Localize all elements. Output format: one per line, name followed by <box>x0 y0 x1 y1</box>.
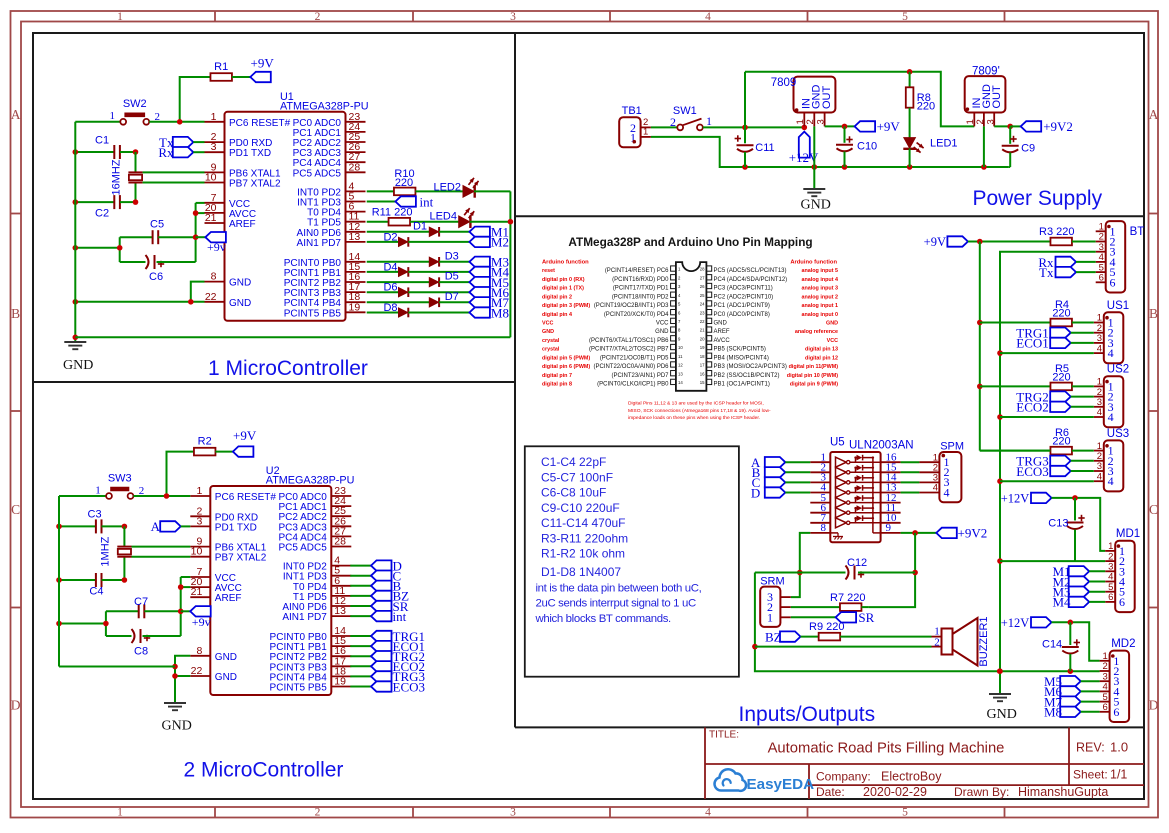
svg-text:C1-C4 22pF: C1-C4 22pF <box>541 455 606 469</box>
svg-text:R2: R2 <box>198 436 212 448</box>
svg-text:Digital Pins 11,12 & 13 are us: Digital Pins 11,12 & 13 are used by the … <box>628 401 764 407</box>
svg-text:C6-C8 10uF: C6-C8 10uF <box>541 486 606 500</box>
svg-text:3: 3 <box>510 11 516 23</box>
svg-text:D: D <box>11 697 21 712</box>
svg-text:8: 8 <box>211 271 217 283</box>
svg-text:1: 1 <box>643 127 648 138</box>
svg-text:1 MicroController: 1 MicroController <box>208 357 368 380</box>
svg-text:220: 220 <box>917 100 935 112</box>
svg-text:6: 6 <box>1103 702 1108 713</box>
svg-text:C12: C12 <box>847 557 867 569</box>
svg-text:crystal: crystal <box>542 338 560 344</box>
svg-text:C1: C1 <box>95 135 109 147</box>
svg-text:GND: GND <box>215 652 237 663</box>
svg-text:19: 19 <box>334 676 346 688</box>
svg-text:Arduino function: Arduino function <box>542 260 589 266</box>
svg-text:D3: D3 <box>445 250 459 262</box>
svg-text:+9V: +9V <box>233 428 257 443</box>
svg-text:(PCINT16/RXD) PD0: (PCINT16/RXD) PD0 <box>612 277 669 283</box>
svg-text:PC5 (ADC5/SCL/PCINT13): PC5 (ADC5/SCL/PCINT13) <box>714 268 787 274</box>
svg-text:(PCINT7/XTAL2/TOSC2) PB7: (PCINT7/XTAL2/TOSC2) PB7 <box>589 347 669 353</box>
svg-text:13: 13 <box>349 231 361 243</box>
svg-text:10: 10 <box>191 546 203 558</box>
svg-text:PD1 TXD: PD1 TXD <box>229 148 271 159</box>
svg-text:PB4 (MISO/PCINT4): PB4 (MISO/PCINT4) <box>714 355 769 361</box>
svg-text:+9V2: +9V2 <box>1043 119 1073 134</box>
svg-text:Drawn By:: Drawn By: <box>954 785 1009 799</box>
svg-text:impedance loads on these pins: impedance loads on these pins when using… <box>628 415 760 421</box>
svg-text:C5-C7 100nF: C5-C7 100nF <box>541 470 613 484</box>
svg-text:4: 4 <box>933 483 938 494</box>
svg-text:A: A <box>1149 107 1159 122</box>
svg-text:analog input 4: analog input 4 <box>801 277 838 283</box>
svg-text:int: int <box>420 194 434 209</box>
svg-text:AREF: AREF <box>714 329 730 335</box>
svg-text:R1: R1 <box>214 61 228 73</box>
svg-text:PC4 (ADC4/SDA/PCINT12): PC4 (ADC4/SDA/PCINT12) <box>714 277 788 283</box>
svg-text:(PCINT21/OC0B/T1) PD5: (PCINT21/OC0B/T1) PD5 <box>600 355 669 361</box>
svg-text:EasyEDA: EasyEDA <box>747 776 815 793</box>
svg-text:1: 1 <box>95 484 101 496</box>
svg-text:R1-R2 10k ohm: R1-R2 10k ohm <box>541 547 625 561</box>
svg-text:(PCINT22/OC0A/AIN0) PD6: (PCINT22/OC0A/AIN0) PD6 <box>593 364 669 370</box>
svg-text:(PCINT14/RESET) PC6: (PCINT14/RESET) PC6 <box>605 268 669 274</box>
svg-text:5: 5 <box>902 806 908 818</box>
svg-text:AREF: AREF <box>229 219 256 230</box>
svg-text:US3: US3 <box>1107 428 1129 440</box>
svg-text:4: 4 <box>1108 410 1114 424</box>
svg-text:24: 24 <box>700 302 705 307</box>
svg-text:R9 220: R9 220 <box>809 621 844 633</box>
svg-text:PB2 (SS/OC1B/PCINT2): PB2 (SS/OC1B/PCINT2) <box>714 373 780 379</box>
svg-text:3: 3 <box>510 806 516 818</box>
svg-text:digital pin 4: digital pin 4 <box>542 312 572 318</box>
svg-text:R11 220: R11 220 <box>372 207 413 219</box>
svg-text:PB7 XTAL2: PB7 XTAL2 <box>215 553 267 564</box>
svg-text:9: 9 <box>886 522 892 534</box>
svg-text:21: 21 <box>700 328 705 333</box>
svg-text:VCC: VCC <box>542 321 553 327</box>
svg-text:PC1 (ADC1/PCINT9): PC1 (ADC1/PCINT9) <box>714 303 770 309</box>
svg-text:6: 6 <box>1110 275 1116 289</box>
svg-text:(PCINT20/XCK/T0) PD4: (PCINT20/XCK/T0) PD4 <box>604 312 669 318</box>
svg-text:3: 3 <box>985 119 996 124</box>
svg-text:4: 4 <box>1108 346 1114 360</box>
svg-text:digital pin 11(PWM): digital pin 11(PWM) <box>789 364 839 370</box>
svg-text:GND: GND <box>229 298 251 309</box>
svg-text:VCC: VCC <box>827 338 838 344</box>
svg-text:+9v: +9v <box>207 240 226 254</box>
svg-text:2: 2 <box>934 636 940 648</box>
svg-text:C7: C7 <box>134 596 148 608</box>
svg-text:PC0 (ADC0/PCINT8): PC0 (ADC0/PCINT8) <box>714 312 770 318</box>
svg-text:digital pin 8: digital pin 8 <box>542 382 572 388</box>
svg-text:US2: US2 <box>1107 364 1129 376</box>
svg-text:5: 5 <box>902 11 908 23</box>
svg-text:R3 220: R3 220 <box>1039 226 1074 238</box>
svg-text:(PCINT17/TXD) PD1: (PCINT17/TXD) PD1 <box>613 286 669 292</box>
svg-text:4: 4 <box>1097 407 1102 418</box>
svg-text:B: B <box>11 306 20 321</box>
svg-text:GND: GND <box>826 321 838 327</box>
svg-text:PC5 ADC5: PC5 ADC5 <box>278 543 327 554</box>
svg-text:(PCINT23/AIN1) PD7: (PCINT23/AIN1) PD7 <box>611 373 669 379</box>
svg-text:GND: GND <box>801 198 831 213</box>
svg-text:1.0: 1.0 <box>1110 740 1128 755</box>
svg-text:D5: D5 <box>445 271 459 283</box>
svg-text:digital pin 10 (PWM): digital pin 10 (PWM) <box>787 373 838 379</box>
svg-text:C3: C3 <box>88 509 102 521</box>
svg-text:digital pin 7: digital pin 7 <box>542 373 572 379</box>
svg-text:C10: C10 <box>857 141 877 153</box>
svg-text:C13: C13 <box>1048 517 1068 529</box>
svg-text:R3-R11 220ohm: R3-R11 220ohm <box>541 531 628 545</box>
svg-text:4: 4 <box>1097 343 1102 354</box>
svg-text:A: A <box>11 107 21 122</box>
svg-text:23: 23 <box>700 310 705 315</box>
svg-text:SRM: SRM <box>760 576 784 588</box>
svg-text:15: 15 <box>700 380 705 385</box>
svg-text:Automatic Road Pits Filling Ma: Automatic Road Pits Filling Machine <box>768 741 1005 757</box>
svg-text:digital pin 13: digital pin 13 <box>805 347 838 353</box>
svg-text:+12V: +12V <box>1001 616 1030 630</box>
svg-text:18: 18 <box>700 354 705 359</box>
svg-text:analog input 5: analog input 5 <box>801 268 838 274</box>
svg-text:GND: GND <box>229 278 251 289</box>
svg-text:19: 19 <box>349 301 361 313</box>
svg-text:MD2: MD2 <box>1111 638 1135 650</box>
svg-text:D6: D6 <box>383 282 397 294</box>
svg-text:OUT: OUT <box>821 86 833 110</box>
svg-text:1: 1 <box>117 806 123 818</box>
svg-text:PC6 RESET#: PC6 RESET# <box>215 492 277 503</box>
svg-text:HimanshuGupta: HimanshuGupta <box>1018 785 1108 799</box>
svg-text:17: 17 <box>700 363 705 368</box>
svg-text:Arduino function: Arduino function <box>790 260 837 266</box>
svg-text:R7 220: R7 220 <box>830 592 865 604</box>
svg-text:1: 1 <box>706 114 712 128</box>
svg-text:reset: reset <box>542 268 555 274</box>
svg-text:M2: M2 <box>491 235 509 250</box>
svg-text:22: 22 <box>700 319 705 324</box>
svg-text:SR: SR <box>858 610 874 625</box>
svg-text:14: 14 <box>678 380 683 385</box>
svg-text:MD1: MD1 <box>1116 528 1140 540</box>
svg-text:ECO2: ECO2 <box>1016 400 1049 415</box>
svg-text:PC5 ADC5: PC5 ADC5 <box>293 168 342 179</box>
svg-text:OUT: OUT <box>991 85 1003 109</box>
svg-text:2020-02-29: 2020-02-29 <box>863 785 927 799</box>
svg-text:ECO3: ECO3 <box>393 679 426 694</box>
svg-text:ULN2003AN: ULN2003AN <box>849 440 914 452</box>
svg-text:C: C <box>1149 502 1158 517</box>
svg-text:analog input 2: analog input 2 <box>801 294 838 300</box>
svg-text:1: 1 <box>767 610 773 624</box>
svg-text:GND: GND <box>987 707 1017 722</box>
svg-text:GND: GND <box>542 329 554 335</box>
svg-text:PD1 TXD: PD1 TXD <box>215 522 257 533</box>
svg-text:analog input 1: analog input 1 <box>801 303 838 309</box>
svg-text:ECO1: ECO1 <box>1016 336 1049 351</box>
svg-text:Rx: Rx <box>158 145 174 160</box>
svg-text:Inputs/Outputs: Inputs/Outputs <box>739 703 876 726</box>
svg-text:4: 4 <box>705 11 711 23</box>
svg-text:D2: D2 <box>383 231 397 243</box>
svg-text:A: A <box>151 519 161 534</box>
svg-text:PB1 (OC1A/PCINT1): PB1 (OC1A/PCINT1) <box>714 382 770 388</box>
svg-text:25: 25 <box>700 293 705 298</box>
svg-text:PCINT5 PB5: PCINT5 PB5 <box>270 683 328 694</box>
svg-text:AVCC: AVCC <box>714 338 731 344</box>
svg-text:2: 2 <box>315 11 321 23</box>
svg-text:11: 11 <box>678 354 683 359</box>
svg-text:Sheet:: Sheet: <box>1073 768 1108 782</box>
svg-text:SPM: SPM <box>940 441 964 453</box>
svg-text:21: 21 <box>191 586 203 598</box>
svg-text:3: 3 <box>815 119 826 124</box>
svg-text:C: C <box>11 502 20 517</box>
svg-text:16: 16 <box>700 371 705 376</box>
svg-text:1: 1 <box>211 111 217 123</box>
svg-text:220: 220 <box>1052 436 1070 448</box>
svg-text:GND: GND <box>655 329 669 335</box>
svg-text:LED2: LED2 <box>433 182 461 194</box>
svg-text:C5: C5 <box>150 219 164 231</box>
svg-text:ATMega328P and Arduino Uno Pin: ATMega328P and Arduino Uno Pin Mapping <box>568 235 812 249</box>
svg-text:C9-C10 220uF: C9-C10 220uF <box>541 501 620 515</box>
svg-text:2 MicroController: 2 MicroController <box>184 759 344 782</box>
svg-text:C8: C8 <box>134 646 148 658</box>
svg-text:4: 4 <box>1097 471 1102 482</box>
svg-text:M4: M4 <box>1053 595 1072 610</box>
svg-text:GND: GND <box>63 358 93 373</box>
svg-text:AIN1 PD7: AIN1 PD7 <box>282 612 327 623</box>
svg-text:digital pin 6 (PWM): digital pin 6 (PWM) <box>542 364 590 370</box>
svg-text:4: 4 <box>705 806 711 818</box>
svg-text:1: 1 <box>109 110 115 122</box>
svg-text:7809: 7809 <box>771 77 797 89</box>
svg-text:GND: GND <box>714 321 728 327</box>
svg-text:D: D <box>1149 697 1159 712</box>
svg-text:1: 1 <box>117 11 123 23</box>
svg-text:C2: C2 <box>95 208 109 220</box>
svg-text:LED1: LED1 <box>930 138 958 150</box>
svg-text:digital pin 9 (PWM): digital pin 9 (PWM) <box>790 382 838 388</box>
svg-text:27: 27 <box>700 275 705 280</box>
svg-text:3: 3 <box>196 515 202 527</box>
svg-text:digital pin 0 (RX): digital pin 0 (RX) <box>542 277 585 283</box>
svg-text:13: 13 <box>334 605 346 617</box>
svg-text:digital pin 5 (PWM): digital pin 5 (PWM) <box>542 355 590 361</box>
svg-text:analog reference: analog reference <box>795 329 838 335</box>
svg-text:(PCINT19/OC2B/INT1) PD3: (PCINT19/OC2B/INT1) PD3 <box>594 303 669 309</box>
svg-text:AIN1 PD7: AIN1 PD7 <box>297 238 342 249</box>
svg-text:C9: C9 <box>1021 143 1035 155</box>
svg-text:28: 28 <box>349 161 361 173</box>
svg-text:digital pin 2: digital pin 2 <box>542 294 572 300</box>
svg-text:D1: D1 <box>413 221 427 233</box>
svg-text:+9V: +9V <box>877 119 901 134</box>
svg-text:6: 6 <box>1119 595 1125 609</box>
svg-text:Date:: Date: <box>816 785 845 799</box>
svg-text:MISO, SCK connections (Atmega1: MISO, SCK connections (Atmega168 pins 17… <box>628 408 771 414</box>
svg-text:digital pin 1 (TX): digital pin 1 (TX) <box>542 286 584 292</box>
svg-text:REV:: REV: <box>1076 741 1105 755</box>
svg-text:M8: M8 <box>491 305 509 320</box>
svg-text:analog input 3: analog input 3 <box>801 286 838 292</box>
svg-text:220: 220 <box>1052 371 1070 383</box>
svg-text:D8: D8 <box>383 302 397 314</box>
svg-text:(PCINT18/INT0) PD2: (PCINT18/INT0) PD2 <box>612 294 669 300</box>
svg-text:20: 20 <box>700 336 705 341</box>
svg-text:28: 28 <box>700 267 705 272</box>
svg-text:TITLE:: TITLE: <box>709 730 739 741</box>
svg-text:(PCINT6/XTAL1/TOSC1) PB6: (PCINT6/XTAL1/TOSC1) PB6 <box>589 338 669 344</box>
svg-text:int: int <box>393 609 407 624</box>
svg-text:26: 26 <box>700 284 705 289</box>
svg-text:C4: C4 <box>89 586 103 598</box>
svg-text:ECO3: ECO3 <box>1016 464 1049 479</box>
svg-text:BUZZER1: BUZZER1 <box>978 616 990 666</box>
svg-text:4: 4 <box>944 485 950 499</box>
svg-text:+9V2: +9V2 <box>958 526 988 541</box>
svg-text:AREF: AREF <box>215 593 242 604</box>
svg-text:PC6 RESET#: PC6 RESET# <box>229 118 291 129</box>
svg-text:C11: C11 <box>755 142 774 154</box>
svg-text:D1-D8 1N4007: D1-D8 1N4007 <box>541 565 621 579</box>
svg-text:1/1: 1/1 <box>1110 768 1127 782</box>
svg-text:4: 4 <box>1108 474 1114 488</box>
svg-text:crystal: crystal <box>542 347 560 353</box>
svg-text:10: 10 <box>678 345 683 350</box>
svg-text:C6: C6 <box>149 271 163 283</box>
svg-text:SW1: SW1 <box>673 105 697 117</box>
svg-text:analog input 0: analog input 0 <box>801 312 838 318</box>
svg-text:PCINT5 PB5: PCINT5 PB5 <box>284 308 342 319</box>
svg-text:22: 22 <box>191 665 203 677</box>
svg-text:2: 2 <box>670 115 676 129</box>
svg-text:digital pin 12: digital pin 12 <box>805 355 838 361</box>
svg-text:(PCINT0/CLKO/ICP1) PB0: (PCINT0/CLKO/ICP1) PB0 <box>597 382 669 388</box>
svg-text:B: B <box>1149 306 1158 321</box>
svg-text:+12V: +12V <box>1001 492 1030 506</box>
svg-text:1: 1 <box>196 485 202 497</box>
svg-text:10: 10 <box>205 172 217 184</box>
svg-text:TB1: TB1 <box>622 105 642 117</box>
svg-text:1MHZ: 1MHZ <box>99 536 111 566</box>
svg-text:BT: BT <box>1130 226 1145 238</box>
svg-text:+9v: +9v <box>192 615 211 629</box>
svg-text:3: 3 <box>211 141 217 153</box>
svg-text:8: 8 <box>196 645 202 657</box>
svg-text:220: 220 <box>395 177 413 189</box>
svg-text:PC2 (ADC2/PCINT10): PC2 (ADC2/PCINT10) <box>714 294 774 300</box>
svg-text:12: 12 <box>678 363 683 368</box>
svg-text:PC3 (ADC3/PCINT11): PC3 (ADC3/PCINT11) <box>714 286 773 292</box>
svg-text:+9V: +9V <box>251 56 275 71</box>
svg-text:Company:: Company: <box>816 770 871 784</box>
svg-text:D4: D4 <box>383 261 397 273</box>
svg-text:digital pin 3 (PWM): digital pin 3 (PWM) <box>542 303 590 309</box>
svg-text:D: D <box>751 485 760 500</box>
svg-text:C11-C14 470uF: C11-C14 470uF <box>541 516 626 530</box>
svg-text:PB7 XTAL2: PB7 XTAL2 <box>229 179 281 190</box>
svg-text:SW2: SW2 <box>123 98 147 110</box>
svg-text:13: 13 <box>678 371 683 376</box>
svg-text:US1: US1 <box>1107 300 1129 312</box>
svg-text:28: 28 <box>334 536 346 548</box>
svg-text:16MHZ: 16MHZ <box>111 159 123 195</box>
svg-text:19: 19 <box>700 345 705 350</box>
svg-text:C14: C14 <box>1042 638 1062 650</box>
svg-text:M8: M8 <box>1044 705 1062 720</box>
svg-text:2: 2 <box>315 806 321 818</box>
svg-text:GND: GND <box>162 719 192 734</box>
svg-text:7809': 7809' <box>972 66 1000 78</box>
svg-text:6: 6 <box>1113 705 1119 719</box>
svg-text:Tx: Tx <box>1039 265 1054 280</box>
svg-text:8: 8 <box>821 522 827 534</box>
svg-text:PB3 (MOSI/OC2A/PCINT3): PB3 (MOSI/OC2A/PCINT3) <box>714 364 787 370</box>
svg-text:+9V: +9V <box>924 235 946 249</box>
svg-text:21: 21 <box>205 212 217 224</box>
svg-text:PB5 (SCK/PCINT5): PB5 (SCK/PCINT5) <box>714 347 766 353</box>
svg-text:2uC sends interrput signal to: 2uC sends interrput signal to 1 uC <box>536 598 696 610</box>
svg-text:SW3: SW3 <box>108 472 132 484</box>
svg-text:220: 220 <box>1052 308 1070 320</box>
svg-text:LED4: LED4 <box>429 211 457 223</box>
svg-text:GND: GND <box>215 672 237 683</box>
svg-text:Power Supply: Power Supply <box>973 187 1103 210</box>
svg-text:VCC: VCC <box>656 321 669 327</box>
svg-text:int is the data pin between bo: int is the data pin between both uC, <box>536 583 702 595</box>
svg-text:ElectroBoy: ElectroBoy <box>881 770 942 784</box>
svg-text:22: 22 <box>205 291 217 303</box>
svg-text:which blocks BT commands.: which blocks BT commands. <box>535 613 672 625</box>
svg-text:6: 6 <box>1099 273 1104 284</box>
svg-text:6: 6 <box>1108 592 1113 603</box>
svg-text:D7: D7 <box>445 291 459 303</box>
svg-text:U5: U5 <box>830 437 845 449</box>
